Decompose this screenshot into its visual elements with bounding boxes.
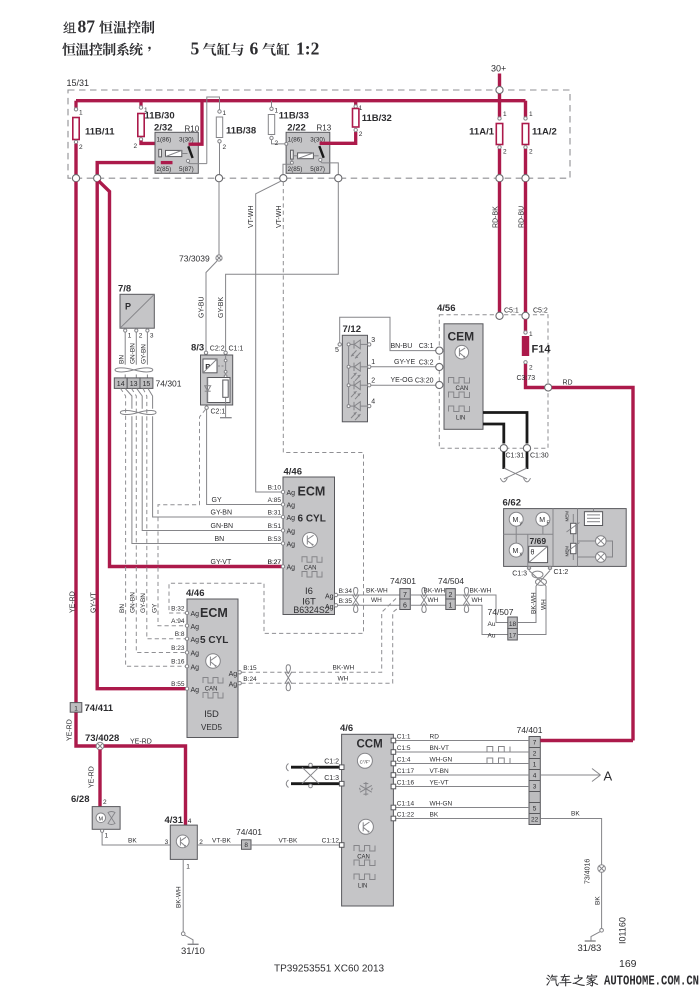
wire YE-OG xyxy=(371,384,436,386)
ECM 6CYL pin B:51 xyxy=(281,529,284,532)
svg-text:2: 2 xyxy=(449,592,453,599)
svg-text:Ag: Ag xyxy=(287,542,296,549)
svg-text:1: 1 xyxy=(449,602,453,609)
svg-text:C1:31: C1:31 xyxy=(506,453,525,460)
svg-text:B:53: B:53 xyxy=(268,536,282,543)
svg-text:11B/32: 11B/32 xyxy=(362,113,392,124)
wire GN-BN to B:51 xyxy=(142,416,283,530)
CAN bus to CCM C1:2 C1:3 xyxy=(291,766,341,769)
wire bus to R10 3(30) xyxy=(189,101,203,145)
wire VT-WH dashed variant xyxy=(169,182,364,634)
junction node at x=283.3 on 15/31 edge xyxy=(280,175,287,182)
title line 2 xyxy=(62,43,289,56)
svg-text:11A/1: 11A/1 xyxy=(469,127,495,138)
svg-text:WH: WH xyxy=(428,597,439,604)
svg-text:5: 5 xyxy=(533,806,537,813)
svg-text:2: 2 xyxy=(529,365,533,372)
svg-text:VT-BN: VT-BN xyxy=(430,768,449,775)
junction node at x=499.5 on 15/31 edge xyxy=(496,175,503,182)
pin C2:1 xyxy=(205,406,208,409)
svg-text:13: 13 xyxy=(130,381,138,388)
svg-text:GY-BN: GY-BN xyxy=(211,510,233,517)
dashed variant wires below 74/301 xyxy=(121,388,186,666)
svg-text:GY-BN: GY-BN xyxy=(140,593,147,613)
wire BK-WH to ground 31/10 xyxy=(182,859,184,932)
svg-text:RD-BK: RD-BK xyxy=(493,206,500,228)
potentiometer MEM 2 xyxy=(571,543,576,553)
ECM 5CYL pin B:55 xyxy=(185,687,188,690)
component 8/3 box xyxy=(201,355,233,405)
wire C1:5 BN-VT xyxy=(393,751,529,753)
svg-text:C3:2: C3:2 xyxy=(419,359,434,366)
svg-text:74/401: 74/401 xyxy=(236,827,262,837)
relay R10 switch xyxy=(188,146,192,158)
wire red bus xyxy=(76,99,526,102)
svg-text:A:94: A:94 xyxy=(171,618,185,625)
svg-text:BK-WH: BK-WH xyxy=(424,587,446,594)
svg-text:YE-RD: YE-RD xyxy=(67,719,74,741)
svg-text:1: 1 xyxy=(223,110,227,117)
svg-text:BK: BK xyxy=(571,811,580,818)
svg-text:Ag: Ag xyxy=(287,503,296,510)
svg-text:RD-BU: RD-BU xyxy=(519,206,526,228)
wire B:24 WH dashed xyxy=(241,607,400,684)
connector 74/401 pin 5 xyxy=(529,802,540,804)
connector 74/401 pin 2 xyxy=(529,747,540,749)
svg-text:74/411: 74/411 xyxy=(85,703,114,714)
ECM 6CYL pin B:10 xyxy=(281,490,284,493)
svg-text:GY-YE: GY-YE xyxy=(394,359,415,366)
svg-text:1: 1 xyxy=(529,111,533,118)
svg-text:3: 3 xyxy=(165,839,169,846)
svg-text:8/3: 8/3 xyxy=(191,343,204,354)
svg-text:74/301: 74/301 xyxy=(156,379,182,389)
wire fuse to relay R13 coil xyxy=(272,140,292,151)
ECM 5CYL K symbol xyxy=(206,654,221,669)
svg-text:BK-WH: BK-WH xyxy=(176,886,183,908)
fuse 11A/2 xyxy=(524,101,527,117)
wire C1:22 BK xyxy=(393,818,529,820)
svg-text:22: 22 xyxy=(531,817,539,824)
fuse 11A/1 xyxy=(498,101,501,117)
svg-text:6/62: 6/62 xyxy=(503,498,522,509)
ECM 6CYL pin B:53 xyxy=(281,542,284,545)
svg-text:2: 2 xyxy=(503,149,507,156)
connector 74/301 pin 15 xyxy=(140,378,153,389)
svg-text:2: 2 xyxy=(223,144,227,151)
component 7/12 box xyxy=(342,335,367,422)
svg-text:11B/11: 11B/11 xyxy=(85,127,115,138)
terminal 73/4016 xyxy=(598,865,606,873)
svg-text:4/56: 4/56 xyxy=(437,303,456,314)
ECM 6CYL CAN symbol xyxy=(302,557,322,563)
wires 74/301 to 74/504 xyxy=(410,594,446,596)
breaker 73/3039 xyxy=(216,255,222,261)
svg-text:GY-BK: GY-BK xyxy=(218,297,225,318)
svg-text:I01160: I01160 xyxy=(618,917,628,944)
svg-text:BK: BK xyxy=(594,896,601,905)
svg-text:C1:22: C1:22 xyxy=(397,811,415,818)
svg-text:YE-VT: YE-VT xyxy=(430,779,449,786)
wire R13 2(85) out xyxy=(283,164,292,175)
svg-text:1: 1 xyxy=(74,705,78,712)
svg-text:15: 15 xyxy=(143,381,151,388)
relay R10 coil element xyxy=(161,161,173,164)
svg-text:74/507: 74/507 xyxy=(488,607,514,617)
wire 6/28 pin1 BK xyxy=(101,829,104,832)
svg-text:73/4016: 73/4016 xyxy=(585,859,592,884)
svg-text:C1:17: C1:17 xyxy=(397,768,415,775)
wire BN to B:53 xyxy=(132,416,283,543)
svg-text:11B/33: 11B/33 xyxy=(279,111,309,122)
svg-text:2: 2 xyxy=(79,144,83,151)
svg-text:6: 6 xyxy=(250,39,259,59)
junction node at x=219 on 15/31 edge xyxy=(215,175,222,182)
svg-text:Au: Au xyxy=(488,621,496,628)
svg-text:ECM: ECM xyxy=(200,606,228,620)
svg-text:TP39253551 XC60 2013: TP39253551 XC60 2013 xyxy=(274,964,385,975)
svg-text:YE-OG: YE-OG xyxy=(391,377,414,384)
relay R10 xyxy=(155,132,198,173)
svg-text:Ag: Ag xyxy=(229,682,238,689)
connector 74/507 pin 18 xyxy=(508,617,518,629)
svg-text:5(87): 5(87) xyxy=(310,166,325,173)
svg-text:MEM: MEM xyxy=(565,511,570,522)
svg-text:74/401: 74/401 xyxy=(517,725,543,735)
svg-text:GY-BN: GY-BN xyxy=(141,344,148,364)
svg-text:GN-BN: GN-BN xyxy=(129,343,136,364)
svg-text:C1:2: C1:2 xyxy=(324,758,339,765)
svg-text:7: 7 xyxy=(533,740,537,747)
svg-text:7/12: 7/12 xyxy=(343,324,362,335)
twisted pair below CEM xyxy=(502,452,505,469)
svg-text:YE-RD: YE-RD xyxy=(70,591,77,613)
svg-text:YE-RD: YE-RD xyxy=(130,739,152,746)
svg-text:B:34: B:34 xyxy=(339,588,353,595)
svg-text:P: P xyxy=(125,302,131,312)
svg-text:GN-BN: GN-BN xyxy=(211,523,234,530)
twisted pair at ECM output xyxy=(354,588,358,597)
svg-text:B:24: B:24 xyxy=(243,676,257,683)
svg-text:1: 1 xyxy=(371,359,375,366)
ECM 6CYL pin A:85 xyxy=(281,503,284,506)
heater grid symbol xyxy=(584,512,602,526)
connector C1:31 xyxy=(500,445,507,452)
svg-text:BK-WH: BK-WH xyxy=(531,592,538,614)
svg-text:1: 1 xyxy=(529,331,533,338)
svg-text:B:55: B:55 xyxy=(171,681,185,688)
connector 74/507 pin 17 xyxy=(508,629,518,641)
svg-text:1(86): 1(86) xyxy=(288,137,303,144)
arrow A xyxy=(540,774,599,776)
wire B:15 BK-WH dashed xyxy=(241,597,397,672)
CCM K symbol xyxy=(358,819,373,834)
7/8 pin 2 and wire xyxy=(135,327,137,330)
wire YE-RD to 6/28 xyxy=(98,750,101,807)
svg-text:GY: GY xyxy=(212,497,222,504)
svg-text:5 CYL: 5 CYL xyxy=(200,635,228,646)
motor MF xyxy=(536,512,550,526)
connector 74/504 pin 2 xyxy=(446,589,456,599)
svg-text:BN: BN xyxy=(215,536,225,543)
ECM 5CYL pin B:32 xyxy=(185,611,188,614)
svg-text:17: 17 xyxy=(509,632,517,639)
wire YE-RD main xyxy=(76,182,186,825)
svg-text:GN-BN: GN-BN xyxy=(130,592,137,613)
svg-text:4/6: 4/6 xyxy=(340,723,353,734)
svg-text:MEM: MEM xyxy=(565,546,570,557)
wire 11B/32 to R13 3(30) xyxy=(320,132,356,143)
svg-text:Ag: Ag xyxy=(191,687,200,694)
svg-text:74/504: 74/504 xyxy=(438,576,464,586)
svg-text:CAN: CAN xyxy=(205,686,218,692)
svg-text:BK-WH: BK-WH xyxy=(333,665,355,672)
svg-text:RD: RD xyxy=(563,379,573,386)
wire fuse to relay R10 coil xyxy=(97,141,161,176)
ECM 6CYL pin B:31 xyxy=(281,515,284,518)
svg-text:Ag: Ag xyxy=(287,529,296,536)
svg-text:C3:20: C3:20 xyxy=(415,377,434,384)
svg-text:VED5: VED5 xyxy=(201,723,222,732)
svg-text:B:23: B:23 xyxy=(171,645,185,652)
svg-text:C1:3: C1:3 xyxy=(324,775,339,782)
lamp 2 xyxy=(596,552,607,563)
svg-text:3: 3 xyxy=(150,333,154,340)
wire VT-BK to 74/401 pin8 xyxy=(197,844,241,846)
wire C1:17 VT-BN xyxy=(393,774,529,776)
svg-text:C1:12: C1:12 xyxy=(322,837,340,844)
svg-text:RD: RD xyxy=(430,733,440,740)
twisted pair below 6/62 xyxy=(529,571,546,587)
svg-text:WH: WH xyxy=(371,597,382,604)
CCM snowflake symbol xyxy=(360,782,373,796)
connector 74/401 pin 22 xyxy=(529,813,540,815)
svg-text:5: 5 xyxy=(191,39,200,59)
svg-text:6 CYL: 6 CYL xyxy=(298,514,326,525)
svg-text:3: 3 xyxy=(371,337,375,344)
LED pin 4 xyxy=(347,405,350,408)
4/31 K symbol xyxy=(176,835,189,848)
svg-text:11B/30: 11B/30 xyxy=(145,111,175,122)
svg-text:YE-RD: YE-RD xyxy=(89,766,96,788)
pulse glyph row C1:4 xyxy=(487,758,510,764)
svg-text:B:35: B:35 xyxy=(339,598,353,605)
CEM left pins xyxy=(436,347,443,354)
svg-text:C1:1: C1:1 xyxy=(229,346,244,353)
svg-text:B:16: B:16 xyxy=(171,659,185,666)
svg-text:2: 2 xyxy=(533,751,537,758)
svg-text:B:15: B:15 xyxy=(243,665,257,672)
svg-text:M: M xyxy=(99,816,104,822)
component 6/62 box xyxy=(504,509,627,567)
fuse F14 xyxy=(524,319,527,331)
motor M in 6/28 xyxy=(96,813,106,823)
twisted pair below 74/301 xyxy=(120,410,156,414)
svg-text:BN: BN xyxy=(118,355,125,364)
svg-text:LIN: LIN xyxy=(358,884,367,890)
svg-text:4: 4 xyxy=(371,399,375,406)
fuse 11B/32 xyxy=(354,101,357,105)
svg-text:C1:1: C1:1 xyxy=(397,733,411,740)
svg-text:7/8: 7/8 xyxy=(118,284,131,295)
svg-text:3: 3 xyxy=(533,784,537,791)
svg-text:CCM: CCM xyxy=(357,739,383,751)
svg-text:R13: R13 xyxy=(317,124,332,133)
connector 74/301 pin 14 xyxy=(114,378,127,389)
6/62 internal wires xyxy=(504,533,553,535)
ECM 6CYL pin B:27 xyxy=(281,565,284,568)
svg-text:GY-VT: GY-VT xyxy=(211,559,232,566)
wire GY-VT branch to B:27 xyxy=(99,181,284,567)
svg-text:I5D: I5D xyxy=(204,709,219,720)
svg-text:Ag: Ag xyxy=(287,515,296,522)
ECM 5CYL pin B:8 xyxy=(185,637,188,640)
connector C1:30 xyxy=(523,445,530,452)
footer logo xyxy=(546,974,598,987)
svg-text:Ag: Ag xyxy=(287,565,296,572)
wire GY-YE xyxy=(371,366,436,368)
svg-text:11B/38: 11B/38 xyxy=(226,126,256,137)
svg-text:VT-BK: VT-BK xyxy=(279,837,298,844)
svg-text:2(85): 2(85) xyxy=(288,166,303,173)
svg-text:BK: BK xyxy=(430,811,439,818)
wire red into 74/401 pin7 xyxy=(540,739,633,742)
wire RD-BK xyxy=(498,182,501,316)
twisted pair 7/8 bundle xyxy=(115,368,153,372)
svg-text:2: 2 xyxy=(103,799,107,806)
svg-text:1: 1 xyxy=(186,864,190,871)
svg-text:CAN: CAN xyxy=(304,565,317,571)
connector 74/301 pin 13 xyxy=(127,378,140,389)
wires 74/507 up to 6/62 xyxy=(517,586,536,623)
junction node at x=76 on 15/31 edge xyxy=(72,175,79,182)
svg-text:14: 14 xyxy=(117,381,125,388)
svg-text:11A/2: 11A/2 xyxy=(532,127,557,138)
svg-text:F: F xyxy=(547,521,550,527)
svg-text:4/46: 4/46 xyxy=(186,588,205,599)
ground 31/83 xyxy=(600,929,604,933)
svg-text:B:8: B:8 xyxy=(175,631,185,638)
title line 1 xyxy=(63,21,154,34)
svg-text:WH: WH xyxy=(541,599,548,610)
svg-text:5: 5 xyxy=(335,347,339,354)
svg-text:31/83: 31/83 xyxy=(578,943,602,954)
wire C1:4 WH-GN xyxy=(393,763,529,765)
svg-text:Ag: Ag xyxy=(325,594,334,601)
svg-text:1: 1 xyxy=(128,333,132,340)
svg-text:B:27: B:27 xyxy=(268,559,282,566)
CEM K symbol xyxy=(455,345,469,359)
svg-text:73/3039: 73/3039 xyxy=(179,254,210,264)
svg-text:2: 2 xyxy=(529,149,533,156)
svg-text:74/301: 74/301 xyxy=(390,576,416,586)
connector 74/401 pin 1 xyxy=(529,758,540,760)
ECM 5CYL pin A:94 xyxy=(185,624,188,627)
7/8 pin 1 and wire xyxy=(124,327,126,330)
wire B:34 BK-WH xyxy=(338,594,400,596)
svg-text:Ag: Ag xyxy=(229,671,238,678)
svg-text:BK-WH: BK-WH xyxy=(470,587,492,594)
wire VT-BK to CCM C1:12 xyxy=(251,844,342,846)
svg-text:Ag: Ag xyxy=(191,651,200,658)
connector 74/301 pin 6 xyxy=(400,599,411,610)
connector 74/401 pin 7 xyxy=(529,736,540,738)
ground 31/10 xyxy=(181,932,185,936)
wires 74/504 to 74/507 xyxy=(455,595,508,623)
svg-text:BK: BK xyxy=(128,837,137,844)
svg-text:M: M xyxy=(513,548,519,555)
svg-text:GY-BU: GY-BU xyxy=(199,296,206,318)
CCM LIN symbol xyxy=(354,874,375,880)
junction node at x=338.3 on 15/31 edge xyxy=(335,175,342,182)
svg-text:2: 2 xyxy=(359,131,363,138)
svg-text:C1:3: C1:3 xyxy=(512,571,527,578)
svg-text:Ag: Ag xyxy=(191,624,200,631)
svg-text:4/31: 4/31 xyxy=(165,815,184,826)
ECM 5CYL box xyxy=(187,599,238,738)
svg-text:C3:73: C3:73 xyxy=(517,375,536,382)
svg-text:18: 18 xyxy=(509,621,517,628)
ECM 5CYL CAN symbol xyxy=(203,678,223,684)
CCM CAN symbol xyxy=(354,846,375,852)
CCM box xyxy=(342,734,394,906)
svg-text:C1:14: C1:14 xyxy=(397,800,415,807)
svg-text:WH: WH xyxy=(338,676,349,683)
wire C1:1 RD xyxy=(393,740,529,742)
wire RD to CCM xyxy=(552,388,633,741)
svg-text:87: 87 xyxy=(78,17,96,37)
svg-text:M: M xyxy=(539,517,545,524)
component 6/28 box xyxy=(92,807,120,830)
svg-text:2: 2 xyxy=(371,378,375,385)
svg-text:Ag: Ag xyxy=(191,637,200,644)
junction node at x=97.2 on 15/31 edge xyxy=(94,175,101,182)
svg-text:C2:2: C2:2 xyxy=(210,346,225,353)
svg-text:BK-WH: BK-WH xyxy=(366,587,388,594)
svg-text:VT-BK: VT-BK xyxy=(212,837,231,844)
connector C5:2 xyxy=(522,312,529,319)
svg-text:6/28: 6/28 xyxy=(71,794,90,805)
relay R10 5(87) xyxy=(186,159,189,162)
svg-text:6: 6 xyxy=(403,602,407,609)
ECM 6CYL right pins B:34 B:35 xyxy=(334,593,337,596)
svg-text:B:32: B:32 xyxy=(171,605,185,612)
twisted pair at 5CYL output xyxy=(286,665,290,674)
fan symbol in 6/28 xyxy=(108,812,115,825)
svg-text:3(30): 3(30) xyxy=(179,137,194,144)
svg-text:BN-VT: BN-VT xyxy=(430,745,450,752)
wire BK to ground xyxy=(540,819,601,929)
ECM 5CYL right pins B:15 B:24 xyxy=(238,671,241,674)
svg-text:WH: WH xyxy=(472,597,483,604)
svg-text:Au: Au xyxy=(488,632,496,639)
svg-text:F14: F14 xyxy=(532,344,552,356)
svg-text:C1:5: C1:5 xyxy=(397,745,411,752)
svg-text:4: 4 xyxy=(188,818,192,825)
junction node at x=525.5 on 15/31 edge xyxy=(522,175,529,182)
svg-text:θ: θ xyxy=(531,550,535,557)
svg-text:BN: BN xyxy=(119,604,126,613)
svg-text:1: 1 xyxy=(503,111,507,118)
connector 74/504 pin 1 xyxy=(446,599,456,610)
svg-text:C°/F°: C°/F° xyxy=(360,759,371,764)
svg-text:1:2: 1:2 xyxy=(296,39,319,59)
svg-text:Ag: Ag xyxy=(287,490,296,497)
svg-text:15/31: 15/31 xyxy=(67,78,90,88)
svg-text:Ag: Ag xyxy=(191,611,200,618)
svg-text:LIN: LIN xyxy=(456,416,465,422)
ECM 6CYL K symbol xyxy=(303,533,318,548)
